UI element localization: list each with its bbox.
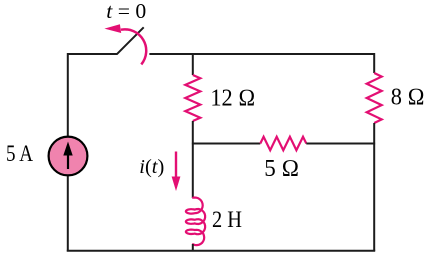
svg-text:i(t): i(t): [139, 156, 164, 178]
wire: right rail below 8-ohm down to bottom-right corner: [373, 123, 375, 251]
resistor 5 ohm: [260, 137, 306, 150]
wire: bottom rail: [67, 250, 375, 252]
switch arrowhead: [104, 24, 121, 33]
switch blade (open, t=0): [117, 27, 144, 54]
current source arrow shaft: [67, 152, 69, 169]
wire: top-right segment from switch contact to top-right corner: [149, 54, 374, 73]
switch opening arc arrow: [121, 29, 146, 64]
resistor 8 ohm: [367, 73, 382, 123]
wire: inductor bottom stub: [192, 244, 194, 251]
svg-text:12 Ω: 12 Ω: [210, 86, 255, 112]
svg-text:5 Ω: 5 Ω: [264, 156, 299, 182]
wire: left rail below source: [67, 176, 69, 251]
current source arrowhead: [63, 142, 72, 156]
current arrowhead: [172, 177, 181, 192]
resistor 12 ohm: [185, 75, 200, 121]
wire: 12-ohm to middle node to inductor top: [192, 121, 194, 198]
svg-text:2 H: 2 H: [212, 207, 242, 232]
wire: middle horizontal, 5-ohm to right rail: [306, 143, 375, 145]
current source 5 A (circle): [49, 137, 88, 176]
inductor 2 H coil: [186, 198, 205, 246]
wire: middle horizontal, node to 5-ohm: [192, 143, 260, 145]
svg-text:t = 0: t = 0: [106, 0, 146, 23]
wire: top-left segment from left rail to switch pivot: [68, 54, 118, 136]
current arrow for i(t): [175, 152, 177, 179]
svg-text:8 Ω: 8 Ω: [391, 85, 425, 111]
svg-text:5 A: 5 A: [6, 141, 33, 166]
wire: stub from top wire to 12-ohm resistor: [192, 53, 194, 75]
